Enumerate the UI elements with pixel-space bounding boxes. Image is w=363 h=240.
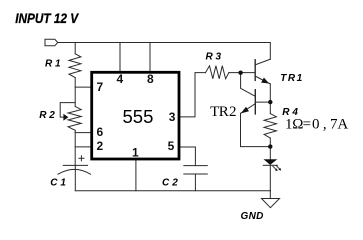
svg-text:2: 2	[229, 104, 237, 120]
svg-text:8: 8	[147, 72, 154, 86]
svg-text:R2: R2	[39, 110, 57, 121]
svg-text:GND: GND	[241, 211, 264, 222]
svg-text:3: 3	[169, 110, 176, 124]
svg-text:C1: C1	[50, 178, 69, 189]
svg-text:TR1: TR1	[280, 73, 303, 84]
svg-text:,: ,	[323, 117, 327, 133]
svg-text:C2: C2	[162, 178, 181, 189]
svg-text:R3: R3	[206, 51, 224, 62]
svg-text:6: 6	[97, 125, 104, 139]
svg-text:A: A	[337, 117, 348, 133]
svg-text:555: 555	[123, 106, 154, 127]
svg-text:=: =	[303, 117, 311, 133]
svg-text:0: 0	[312, 117, 320, 133]
svg-text:4: 4	[117, 72, 124, 86]
svg-text:INPUT 12 V: INPUT 12 V	[15, 10, 79, 26]
svg-text:1: 1	[132, 145, 139, 159]
svg-text:R1: R1	[45, 59, 63, 70]
svg-text:2: 2	[97, 139, 104, 153]
svg-text:5: 5	[168, 139, 175, 153]
svg-text:R: R	[219, 104, 229, 120]
svg-text:7: 7	[97, 80, 104, 94]
